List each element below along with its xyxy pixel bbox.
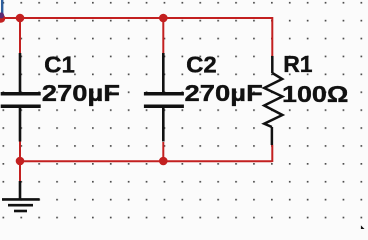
wire: R1 bottom stub bbox=[271, 145, 273, 162]
capacitor C2 bbox=[144, 53, 184, 142]
svg-text:R1: R1 bbox=[283, 51, 313, 77]
wire: C1 top stub bbox=[19, 18, 21, 53]
wire: top horizontal net bbox=[0, 17, 272, 19]
svg-text:C2: C2 bbox=[186, 51, 217, 77]
resistor R1 bbox=[264, 56, 282, 145]
wire: bottom horizontal net bbox=[20, 160, 272, 162]
wire: blue wire stub top-left bbox=[1, 0, 3, 16]
mouse cursor bbox=[361, 225, 365, 233]
wire: ground stub bbox=[19, 161, 21, 181]
svg-text:270µF: 270µF bbox=[185, 80, 263, 106]
svg-text:C1: C1 bbox=[44, 52, 75, 78]
svg-text:100Ω: 100Ω bbox=[282, 81, 348, 107]
wire: right vertical drop to R1 bbox=[271, 17, 273, 56]
node: junction dot at left edge bbox=[0, 14, 5, 23]
capacitor C1 bbox=[1, 53, 41, 142]
ground bbox=[2, 181, 40, 211]
node: junction dot C2 bottom bbox=[159, 157, 168, 166]
node: junction dot C2 top bbox=[159, 14, 168, 23]
wire: blue wire overlap blend bbox=[0, 12, 4, 18]
svg-text:270µF: 270µF bbox=[42, 80, 120, 106]
node: junction dot C1 bottom bbox=[16, 157, 25, 166]
wire: C1 bottom stub bbox=[19, 142, 21, 162]
wire: C2 top stub bbox=[162, 18, 164, 53]
node: junction dot top-left net bbox=[16, 14, 25, 23]
wire: C2 bottom stub bbox=[162, 142, 164, 161]
